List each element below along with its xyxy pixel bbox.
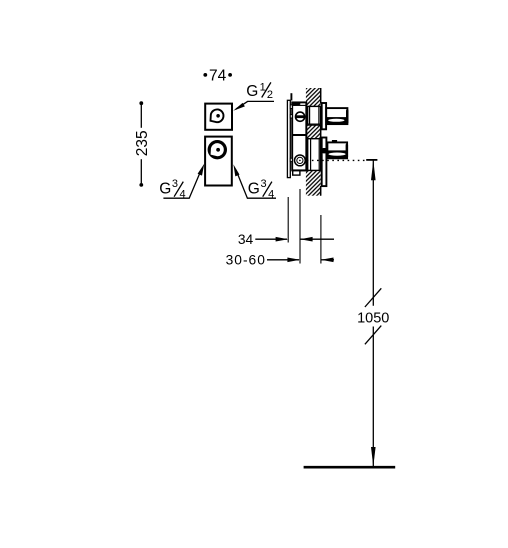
side view: left tab upper [290, 105, 292, 109]
front view: bottom rectangle (valve body) [205, 137, 232, 186]
dotted centre line [307, 159, 367, 161]
side view: bottom foot [293, 171, 300, 176]
extension line from body face [299, 189, 301, 264]
thick ring inside bottom rectangle [208, 140, 227, 159]
side view: lower supply circle dot [299, 160, 301, 162]
leader arrow G 3/4 right to bottom rect [233, 164, 276, 198]
dimension 34 [238, 232, 334, 247]
side view: left tab lower [290, 158, 292, 161]
svg-text:30-60: 30-60 [226, 253, 266, 268]
wall hatch patch above [306, 88, 321, 106]
lower cartridge stem through wall [308, 139, 321, 171]
svg-text:1050: 1050 [357, 311, 389, 327]
svg-text:3: 3 [172, 178, 178, 190]
side view: screw head circle [296, 112, 305, 121]
side view: middle divider line [292, 134, 307, 136]
side view: lower supply circle inner [297, 157, 303, 163]
svg-text:2: 2 [267, 89, 273, 101]
leader arrow G 1/2 to top square [233, 101, 274, 110]
break mark lower [365, 326, 381, 345]
side view: screw slot bar [296, 115, 305, 118]
extension line from wall surface [320, 215, 322, 264]
side view: back mounting plate [287, 100, 290, 177]
dimension 30-60 [226, 253, 334, 268]
dimension 1050 vertical [357, 160, 389, 467]
front view: top square (G1/2 outlet) [205, 104, 232, 130]
handle-plate connector [322, 148, 328, 153]
dimension 74 label with dots [203, 68, 232, 85]
upper handle [326, 108, 349, 125]
lower handle [322, 140, 348, 159]
leader arrow G 3/4 left to bottom rect [163, 164, 204, 199]
label G 3/4 left [159, 178, 185, 201]
svg-text:235: 235 [134, 130, 151, 156]
break mark upper [365, 288, 381, 307]
svg-text:3: 3 [261, 178, 267, 190]
side view: lower supply circle outer [295, 155, 306, 166]
svg-text:G: G [159, 180, 171, 197]
label G 1/2 [246, 82, 273, 102]
svg-text:74: 74 [209, 68, 227, 85]
extension line from trim face [287, 197, 289, 243]
side view: top black wedge detail [293, 103, 301, 106]
wall hatch patch below [306, 171, 321, 196]
lower trim plate on wall [322, 138, 327, 187]
floor line [304, 466, 396, 469]
dimension 235 vertical [134, 101, 151, 187]
svg-text:G: G [246, 83, 258, 100]
side view: valve body box [292, 102, 306, 170]
upper cartridge stem through wall [308, 106, 321, 124]
wall hatch patch middle [307, 125, 321, 139]
side view: top stub pipe [290, 93, 292, 100]
cam circle inside top square [211, 109, 224, 122]
wall surface line segments [320, 88, 322, 196]
label G 3/4 right [248, 178, 274, 201]
upper trim plate on wall [322, 103, 326, 129]
side view: inner top line [293, 104, 306, 106]
svg-text:34: 34 [238, 232, 254, 247]
svg-text:G: G [248, 180, 260, 197]
side view: left tab mid [290, 115, 292, 118]
body bottom edge over foot [292, 169, 306, 171]
